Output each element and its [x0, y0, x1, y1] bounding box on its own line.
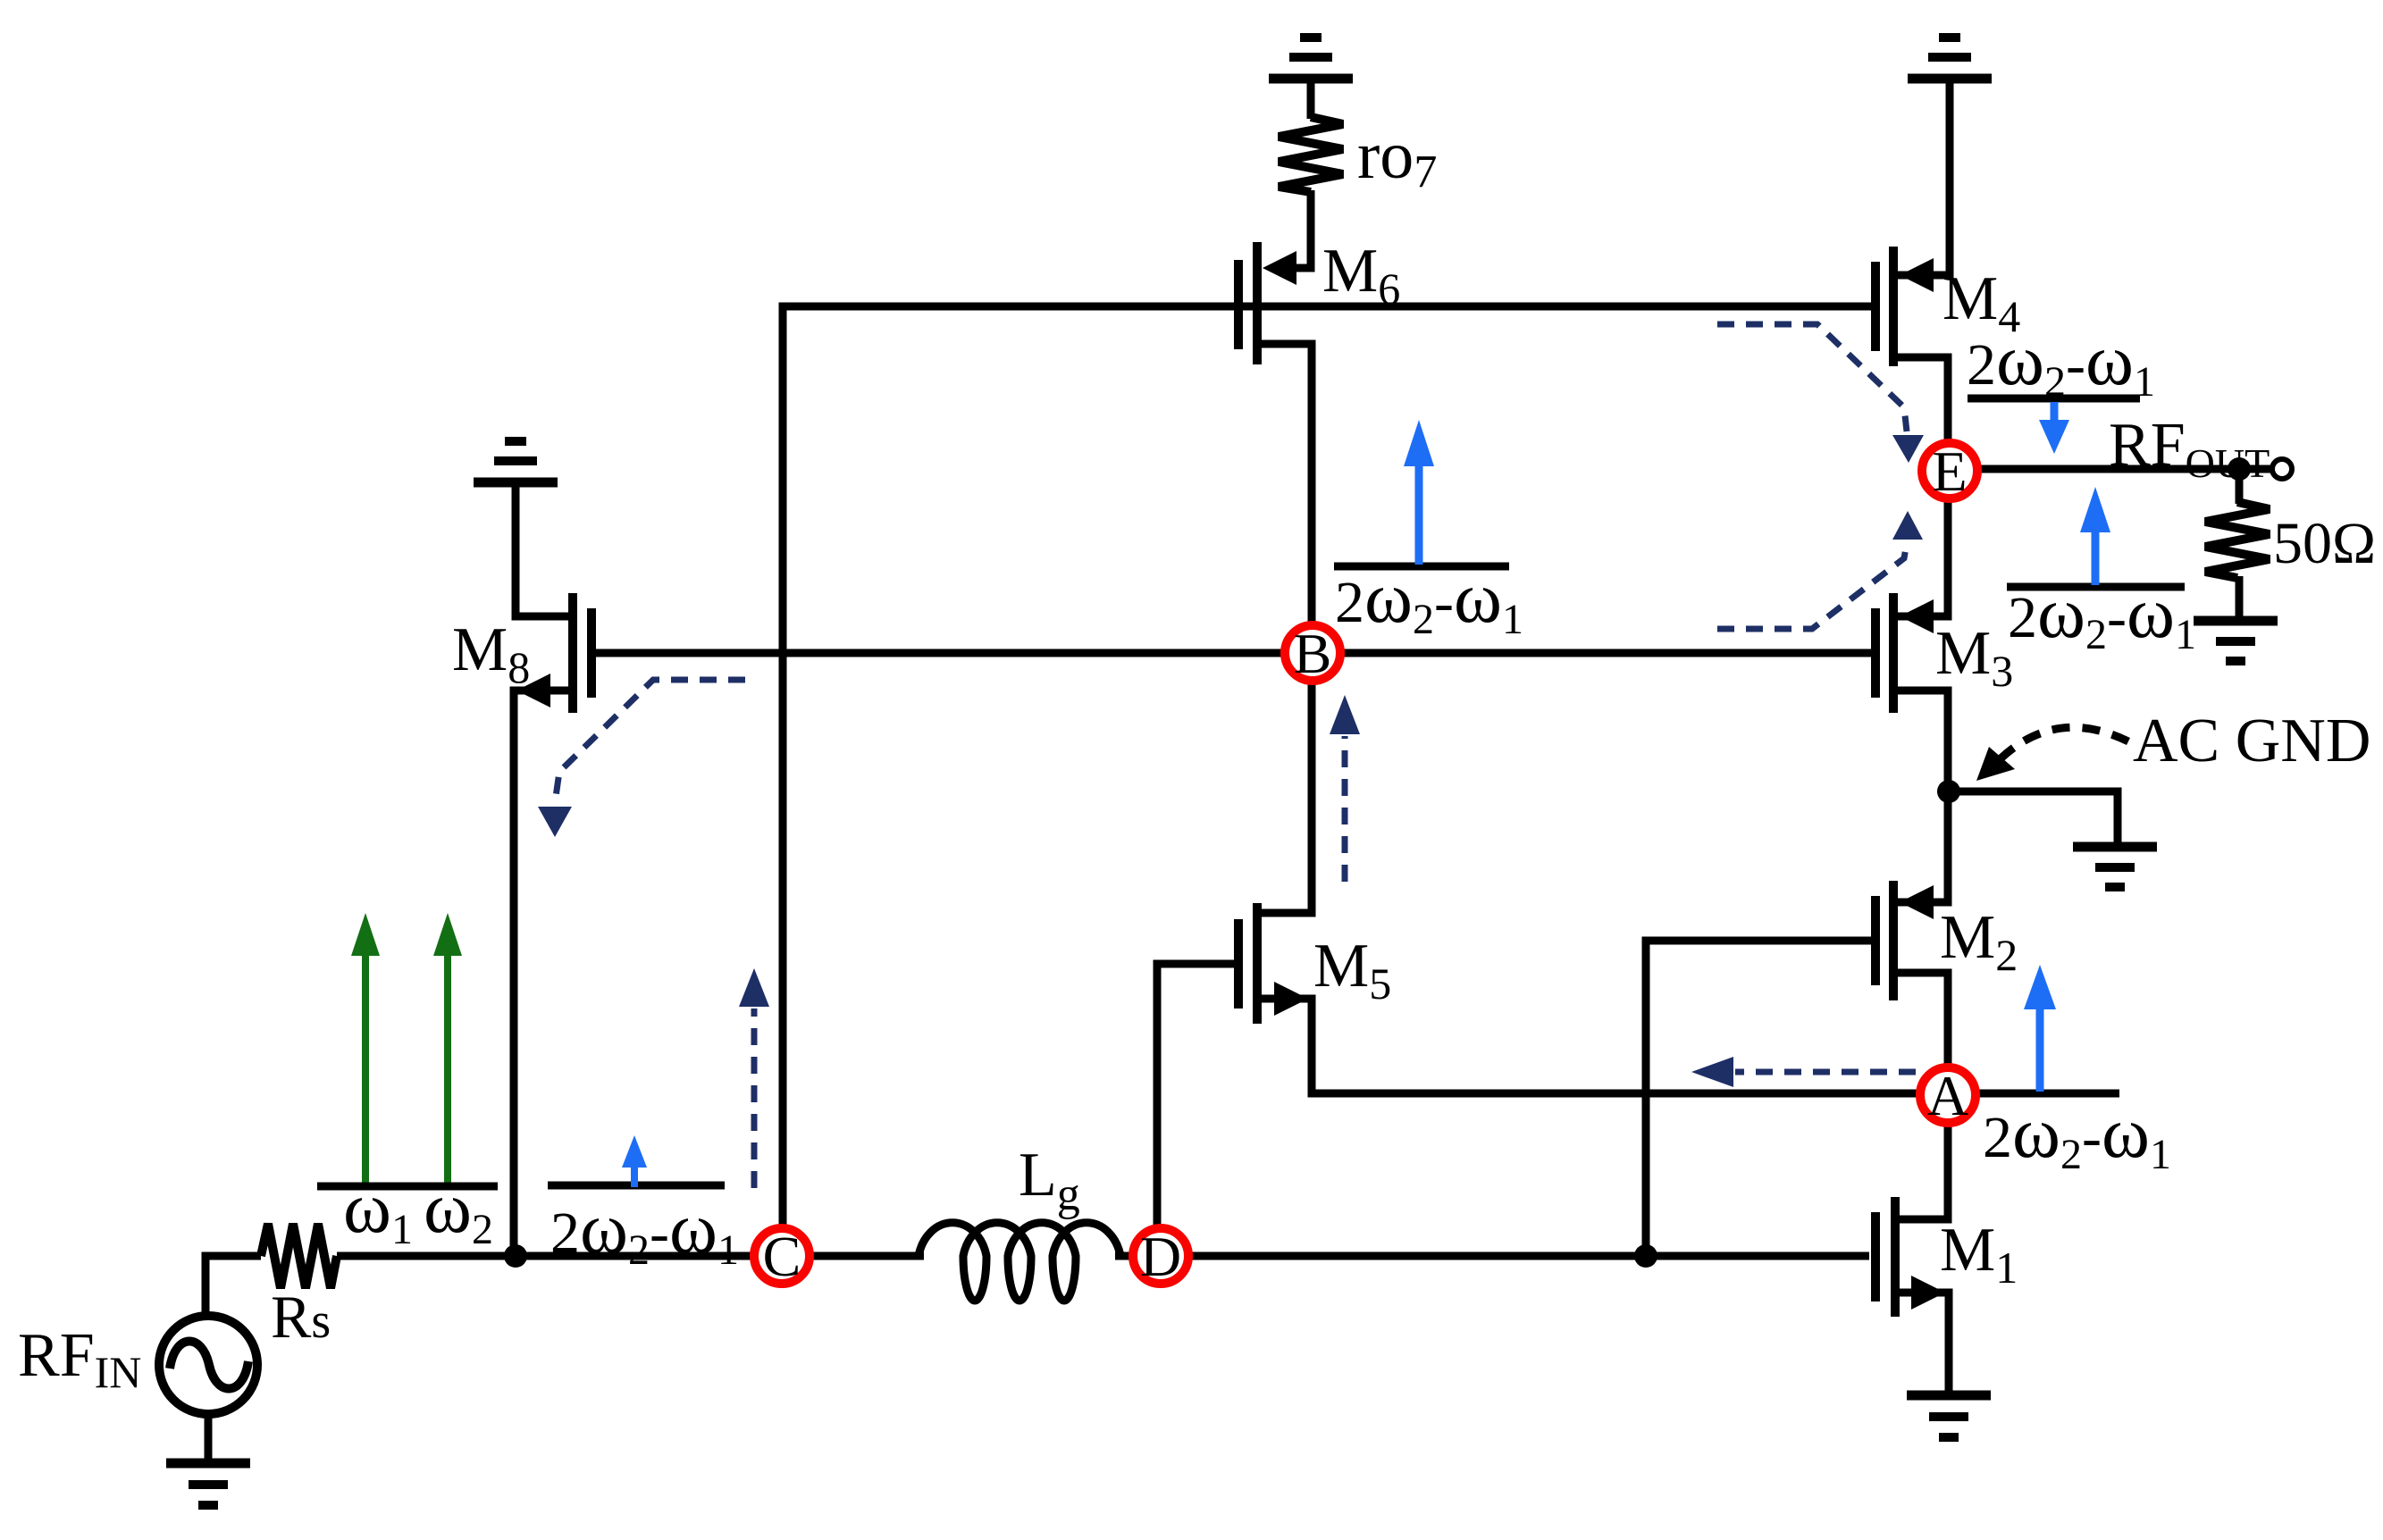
wire M8 drain to top ground — [516, 484, 570, 616]
transistor M6 — [1238, 242, 1296, 364]
svg-text:M8: M8 — [452, 615, 530, 692]
dashed AC GND pointer arc — [1976, 727, 2128, 781]
wire M2 gate to rail — [1646, 941, 1873, 1256]
node C circle — [754, 1225, 810, 1288]
svg-text:ω1ω2: ω1ω2 — [343, 1167, 493, 1253]
transistor M4 — [1875, 247, 1934, 366]
wire main input rail — [337, 1252, 1869, 1260]
node B circle — [1285, 622, 1340, 685]
wire M1 drain from node A — [1900, 1122, 1948, 1219]
dashed current arrow up near node C — [739, 968, 769, 1188]
junction dot AC GND — [1937, 780, 1960, 803]
node D circle — [1133, 1225, 1188, 1288]
wire M1 source to ground — [1900, 1293, 1949, 1391]
ground above ro7 — [1269, 38, 1353, 79]
svg-text:C: C — [763, 1225, 801, 1288]
ground above M4 — [1908, 38, 1992, 79]
svg-text:B: B — [1294, 622, 1332, 685]
svg-text:E: E — [1932, 439, 1967, 503]
ground above M8 — [474, 441, 558, 482]
wire M5 gate to node D — [1157, 964, 1234, 1226]
wire M2 drain from junction — [1898, 791, 1948, 902]
svg-text:2ω2-ω1: 2ω2-ω1 — [1967, 319, 2155, 406]
wire M2 source to node A — [1898, 973, 1948, 1068]
spectrum baseline at E bottom — [2007, 583, 2185, 591]
dashed current arrow into node E from M3 gate side — [1717, 511, 1923, 629]
spectrum baseline at C — [548, 1182, 725, 1190]
svg-text:RFOUT: RFOUT — [2109, 411, 2270, 486]
inductor Lg — [919, 1223, 1120, 1301]
ground AC GND branch — [2073, 847, 2157, 887]
wire M3 drain to node E — [1898, 499, 1948, 616]
resistor 50ohm — [2205, 502, 2270, 578]
svg-text:M3: M3 — [1935, 619, 2013, 696]
wire 50ohm load branch — [2236, 469, 2244, 616]
ground below RFin source — [166, 1463, 250, 1505]
wire top gate line from node C riser to M4 gate — [783, 306, 1875, 1225]
junction dot RFout — [2228, 457, 2251, 481]
transistor M8 — [516, 593, 592, 713]
wire M3 source to AC GND junction — [1898, 690, 1948, 791]
svg-text:Lg: Lg — [1019, 1141, 1080, 1220]
blue IM3 arrow at E bottom (up) — [2080, 487, 2110, 585]
wire M8 source down to rail — [514, 690, 570, 1256]
svg-text:RFIN: RFIN — [18, 1321, 141, 1397]
green tone arrow omega2 — [433, 913, 462, 1183]
spectrum baseline at E top — [1968, 395, 2140, 403]
svg-text:AC GND: AC GND — [2133, 707, 2370, 775]
junction dot at M2 gate/rail — [1634, 1244, 1657, 1268]
wire M6 source down through node B to M5 drain — [1260, 344, 1312, 913]
svg-text:A: A — [1927, 1064, 1968, 1127]
svg-text:ro7: ro7 — [1357, 118, 1437, 197]
svg-text:50Ω: 50Ω — [2273, 511, 2376, 576]
node E circle — [1922, 439, 1977, 503]
wire M5 source to node A line — [1260, 999, 2119, 1093]
wire M4 drain to top ground — [1898, 82, 1950, 275]
blue IM3 arrow at E top (down) — [2039, 402, 2069, 454]
svg-text:M6: M6 — [1322, 237, 1400, 314]
ground below M1 — [1907, 1395, 1991, 1437]
spectrum baseline omega1 omega2 — [317, 1183, 498, 1191]
dashed current arrow up to node B — [1330, 695, 1360, 882]
ground below 50ohm — [2194, 621, 2278, 661]
svg-text:M5: M5 — [1313, 932, 1391, 1009]
svg-text:D: D — [1140, 1225, 1181, 1288]
RFin AC source — [159, 1316, 257, 1414]
svg-text:Rs: Rs — [271, 1283, 331, 1351]
resistor ro7 — [1279, 117, 1343, 192]
node A circle — [1920, 1064, 1976, 1127]
wire node B gate line M8 to M3 — [593, 649, 1873, 657]
green tone arrow omega1 — [351, 913, 380, 1183]
transistor M5 — [1238, 903, 1308, 1024]
dashed current arrow from M8 — [538, 680, 745, 837]
wire RFin branch — [206, 1256, 261, 1465]
blue IM3 arrow at A — [2024, 965, 2056, 1092]
transistor M1 — [1875, 1197, 1945, 1317]
dashed current arrow left from node A — [1691, 1057, 1916, 1087]
transistor M2 — [1875, 881, 1934, 1000]
spectrum baseline at B — [1334, 563, 1509, 571]
terminal open circle RFout — [2272, 459, 2292, 479]
svg-text:2ω2-ω1: 2ω2-ω1 — [1983, 1092, 2171, 1178]
resistor Rs — [261, 1224, 337, 1288]
transistor M3 — [1875, 593, 1934, 713]
wire AC GND branch — [1949, 791, 2118, 843]
svg-text:2ω2-ω1: 2ω2-ω1 — [550, 1187, 739, 1274]
svg-text:M1: M1 — [1940, 1216, 2018, 1293]
wire M4 source down to node E — [1898, 357, 1948, 442]
blue IM3 arrow at C — [622, 1135, 647, 1187]
svg-text:M2: M2 — [1940, 903, 2018, 980]
dashed current arrow into node E from M4 gate side — [1717, 324, 1924, 463]
wire ro7 to M6 drain — [1296, 82, 1311, 268]
junction dot at M8/rail — [504, 1244, 527, 1268]
blue IM3 arrow at B — [1404, 420, 1434, 565]
wire node E to RFout terminal — [1978, 465, 2270, 473]
